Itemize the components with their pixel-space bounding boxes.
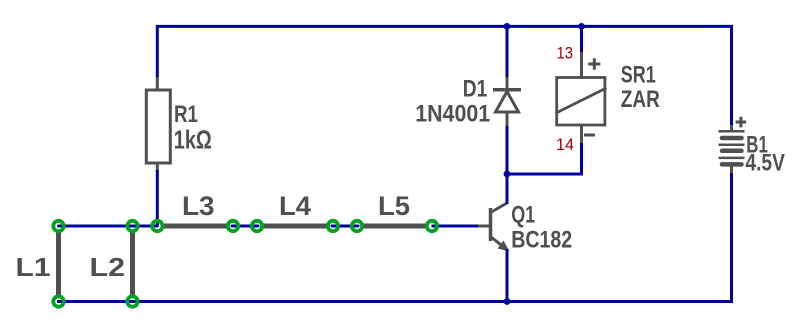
junction node emitter-bottom	[504, 298, 511, 305]
wire link L4	[257, 224, 333, 229]
svg-text:L1: L1	[16, 252, 51, 282]
wire L5 to base	[432, 225, 479, 228]
svg-text:L5: L5	[378, 191, 410, 221]
svg-text:L3: L3	[182, 191, 215, 221]
relay SR1	[556, 50, 607, 144]
svg-text:4.5V: 4.5V	[745, 150, 785, 177]
svg-text:1kΩ: 1kΩ	[174, 125, 212, 155]
wire relay bottom to collector node	[507, 143, 582, 174]
wire link L5	[357, 224, 432, 229]
svg-text:Q1: Q1	[511, 201, 535, 228]
battery B1	[719, 117, 747, 174]
lamp element L2	[130, 226, 135, 302]
wire L4-L5	[332, 225, 358, 228]
relay plus mark	[588, 58, 600, 70]
lamp element L1	[56, 226, 61, 302]
white pads under terminals	[53, 221, 438, 308]
wire link L3	[157, 224, 233, 229]
svg-text:BC182: BC182	[511, 226, 572, 253]
svg-text:L4: L4	[279, 191, 311, 221]
junction node top-relay	[578, 23, 585, 30]
wire L3-L4	[232, 225, 258, 228]
terminal rings	[53, 221, 437, 307]
wire diode to collector	[506, 126, 509, 204]
svg-text:SR1: SR1	[621, 61, 656, 88]
junction node collector	[504, 171, 511, 178]
relay minus mark	[584, 134, 595, 137]
resistor R1	[146, 76, 170, 171]
wire bottom rail	[57, 173, 732, 302]
wire emitter down	[506, 249, 509, 302]
svg-text:D1: D1	[463, 76, 488, 103]
wire top loop	[157, 26, 731, 125]
svg-text:13: 13	[557, 45, 574, 63]
battery plus mark	[736, 117, 747, 128]
wire diode top	[506, 25, 509, 77]
transistor Q1	[477, 203, 510, 252]
wire relay top	[580, 25, 583, 52]
junction node top-diode	[504, 23, 511, 30]
svg-text:1N4001: 1N4001	[415, 101, 490, 128]
svg-text:L2: L2	[90, 252, 126, 282]
diode D1	[493, 76, 521, 127]
wire top row L1-L3	[59, 225, 158, 228]
svg-text:ZAR: ZAR	[621, 86, 660, 113]
svg-text:14: 14	[556, 136, 574, 154]
wire resistor to L3 node	[156, 170, 159, 226]
